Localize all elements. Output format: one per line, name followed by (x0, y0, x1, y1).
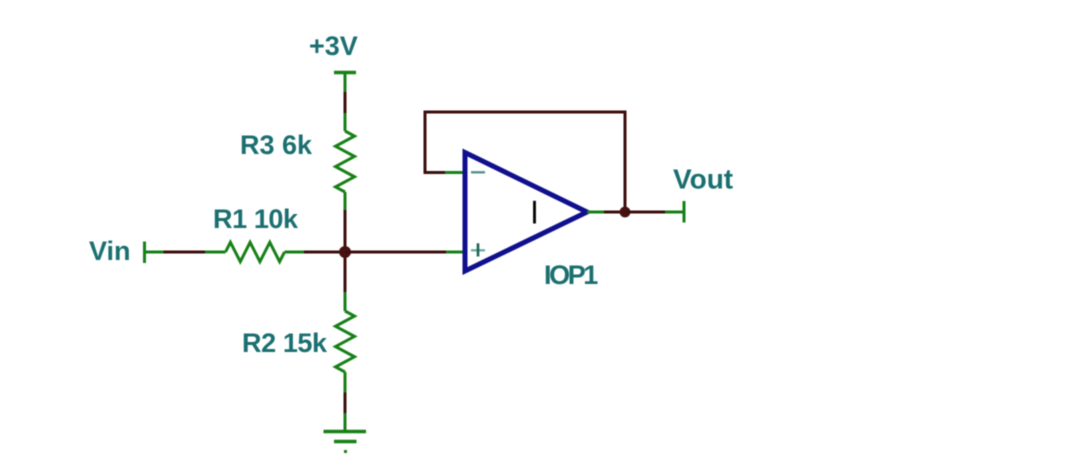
label IOP1 (544, 260, 598, 290)
wire: maroon segment below power (344, 92, 347, 113)
resistor R2 (336, 311, 355, 372)
svg-text:Vout: Vout (673, 164, 733, 195)
wire: green into R2 top (344, 292, 347, 311)
svg-text:IOP1: IOP1 (544, 260, 598, 290)
label Vin (89, 236, 131, 266)
wire: R2 bottom green (344, 372, 347, 393)
label R1 10k (213, 204, 299, 234)
svg-text:R1 10k: R1 10k (213, 204, 299, 234)
power symbol +3V (334, 71, 356, 74)
label R2 15k (242, 328, 328, 358)
wire: maroon down to node A (344, 210, 347, 252)
wire: maroon stub to inverting input (424, 171, 446, 174)
wire: maroon segment Vin (164, 251, 206, 254)
wire: green stub into + input (446, 251, 466, 254)
wire: feedback loop maroon (425, 112, 625, 207)
label Vout (673, 164, 733, 195)
wire: green to Vout port (665, 211, 683, 214)
svg-text:Vin: Vin (89, 236, 131, 266)
wire: op-amp output green stub (587, 211, 604, 214)
wire: maroon into output node (604, 211, 625, 214)
wire: green into ground (344, 413, 347, 431)
port Vout terminal (683, 201, 686, 223)
wire: maroon below node A (344, 252, 347, 292)
node A junction (339, 246, 351, 258)
wire: maroon output node to port (625, 211, 665, 214)
label +3V (309, 31, 358, 61)
wire: green stub into - input (445, 171, 466, 174)
label R3 6k (240, 130, 313, 160)
resistor R3 (336, 131, 355, 192)
svg-text:R2 15k: R2 15k (242, 328, 328, 358)
wire: R1 right green (285, 251, 305, 254)
op-amp U1 (IOP1) (465, 153, 587, 272)
resistor R1 (226, 242, 285, 261)
ground (324, 432, 367, 452)
wire: maroon above ground (344, 393, 347, 414)
wire: Vin port green (145, 251, 164, 254)
wire: R3 bottom green (344, 192, 347, 210)
port Vin terminal (143, 242, 146, 264)
wire: green into R1 left (205, 251, 226, 254)
wire: green into R3 top (344, 113, 347, 131)
svg-text:R3 6k: R3 6k (240, 130, 313, 160)
svg-text:+3V: +3V (309, 31, 358, 61)
node output junction (620, 207, 631, 218)
wire: maroon node A to op-amp (345, 251, 446, 254)
wire: maroon into node A (304, 251, 345, 254)
wire: power bar to R3 (green) (344, 73, 347, 93)
